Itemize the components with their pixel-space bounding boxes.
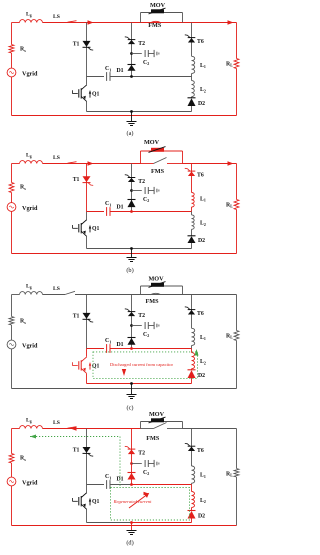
svg-text:FMS: FMS bbox=[151, 168, 165, 175]
svg-text:T6: T6 bbox=[197, 39, 204, 45]
svg-text:(a): (a) bbox=[127, 130, 134, 137]
svg-text:Vgrid: Vgrid bbox=[22, 480, 38, 487]
svg-text:MOV: MOV bbox=[149, 411, 165, 418]
svg-text:D2: D2 bbox=[198, 238, 205, 244]
svg-text:Vgrid: Vgrid bbox=[22, 205, 38, 212]
svg-text:LS: LS bbox=[53, 14, 60, 20]
svg-text:LS: LS bbox=[53, 286, 60, 292]
svg-text:(d): (d) bbox=[126, 540, 133, 547]
svg-text:Regenerated current: Regenerated current bbox=[113, 499, 152, 504]
svg-text:T2: T2 bbox=[138, 179, 145, 185]
svg-text:Vgrid: Vgrid bbox=[22, 343, 38, 350]
svg-text:MOV: MOV bbox=[144, 139, 160, 146]
svg-text:D2: D2 bbox=[198, 514, 205, 520]
svg-text:T2: T2 bbox=[138, 313, 145, 319]
svg-text:T1: T1 bbox=[73, 177, 80, 183]
svg-text:D1: D1 bbox=[117, 204, 124, 210]
svg-text:FMS: FMS bbox=[145, 298, 159, 305]
svg-text:T2: T2 bbox=[138, 41, 145, 47]
svg-text:T6: T6 bbox=[197, 448, 204, 454]
svg-text:D2: D2 bbox=[198, 101, 205, 107]
svg-text:T1: T1 bbox=[73, 42, 80, 48]
svg-text:MOV: MOV bbox=[148, 276, 164, 283]
svg-text:T2: T2 bbox=[138, 451, 145, 457]
svg-text:(c): (c) bbox=[127, 405, 134, 412]
svg-text:FMS: FMS bbox=[148, 22, 162, 29]
svg-text:Vgrid: Vgrid bbox=[22, 71, 38, 78]
svg-text:(b): (b) bbox=[126, 267, 133, 274]
svg-text:T6: T6 bbox=[197, 311, 204, 317]
svg-text:FMS: FMS bbox=[146, 435, 160, 442]
svg-text:T1: T1 bbox=[73, 448, 80, 454]
svg-text:LS: LS bbox=[53, 155, 60, 161]
svg-text:MOV: MOV bbox=[150, 2, 166, 9]
svg-text:Discharged current from capaci: Discharged current from capacitor bbox=[110, 362, 174, 367]
svg-text:Q1: Q1 bbox=[92, 226, 100, 232]
svg-text:D1: D1 bbox=[117, 68, 124, 74]
svg-text:D2: D2 bbox=[198, 373, 205, 379]
svg-text:T6: T6 bbox=[197, 173, 204, 179]
svg-text:T1: T1 bbox=[73, 314, 80, 320]
svg-text:LS: LS bbox=[53, 420, 60, 426]
svg-text:Q1: Q1 bbox=[92, 499, 100, 505]
svg-text:Q1: Q1 bbox=[92, 91, 100, 97]
svg-text:D1: D1 bbox=[117, 342, 124, 348]
